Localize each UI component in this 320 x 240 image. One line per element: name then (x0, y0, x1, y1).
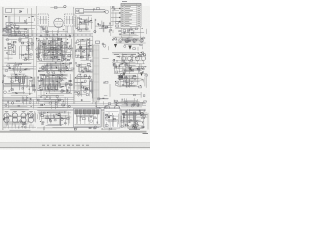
wire (102, 43, 109, 59)
wire (2, 74, 36, 95)
wire (114, 98, 147, 107)
wire (4, 39, 17, 61)
cable bus band (90, 45, 99, 102)
output transformer T5 (21, 112, 26, 127)
output transformer T3 (4, 112, 9, 127)
wire (38, 40, 71, 60)
wire (37, 126, 99, 130)
wire (96, 98, 111, 109)
wire bus lower (3, 104, 147, 111)
wire to table (111, 6, 121, 26)
wire bus left-mid (3, 67, 94, 102)
wire (84, 10, 105, 12)
wire (19, 38, 34, 61)
output transformer T4 (12, 112, 17, 127)
title strip (0, 143, 150, 148)
power resistor bank (45, 85, 58, 90)
wire (50, 5, 73, 8)
signal arrow (123, 73, 126, 77)
resistor R1 R2 (15, 26, 20, 33)
scan noise (0, 6, 150, 131)
power transistor Q301 (104, 105, 109, 110)
wire (11, 8, 27, 13)
wire (113, 62, 147, 74)
label above table (122, 0, 127, 2)
wire (10, 126, 31, 130)
wire (2, 96, 33, 110)
wire (4, 62, 33, 74)
wire (37, 26, 68, 33)
IF transformer T1 (38, 14, 49, 33)
power transistor Q302 (114, 105, 119, 110)
frame left inner line (2, 7, 4, 130)
wire (112, 7, 119, 22)
parts table (121, 4, 141, 27)
wire drops to bus (3, 125, 36, 129)
wire (38, 111, 72, 126)
IF transformer T2 (65, 14, 76, 33)
module M2 parts (105, 112, 119, 126)
output transformer T6 (28, 112, 33, 127)
heavy bus segment (3, 34, 23, 36)
module M1 parts (76, 116, 98, 124)
capacitor stack C1-C3 (6, 23, 11, 33)
wire (75, 38, 93, 60)
connector box P1 (76, 9, 84, 14)
wire (5, 16, 36, 26)
title strip text (42, 144, 89, 146)
wire (101, 128, 116, 131)
wire bus mid (4, 14, 94, 36)
wire (37, 95, 73, 109)
signal arrow (128, 68, 131, 72)
bottom margin (0, 133, 150, 150)
frame bottom edge (0, 131, 147, 133)
choke coils (19, 76, 25, 83)
wire (2, 28, 35, 38)
wire (77, 8, 106, 14)
wire (112, 52, 145, 63)
resistor group near table (116, 22, 122, 29)
wire (36, 38, 73, 62)
wire verticals (9, 6, 141, 104)
tube V1 (54, 18, 63, 27)
dark blob (119, 75, 124, 80)
signal arrow (114, 44, 117, 48)
tube V2 (105, 10, 108, 13)
tube V1 internals (55, 18, 62, 33)
wire (103, 81, 110, 96)
wire (115, 73, 148, 88)
wire (94, 19, 108, 34)
wire (75, 15, 93, 31)
wire (3, 111, 35, 126)
signal arrow (128, 46, 131, 50)
module box M1 (74, 109, 102, 128)
wire (102, 110, 103, 127)
wire (75, 62, 93, 73)
wire (112, 37, 146, 44)
wire (37, 74, 74, 96)
wire (124, 44, 143, 50)
wire (74, 74, 92, 101)
frame left line (1, 7, 3, 130)
transistors Q201-Q204 (122, 57, 146, 65)
band top connector (96, 41, 100, 44)
caption text (143, 133, 149, 135)
caption text 2 (129, 128, 140, 130)
transistor labels row (114, 54, 144, 56)
wire (121, 109, 148, 129)
wire (113, 28, 146, 36)
wire (120, 92, 145, 98)
terminal box J1 (6, 9, 12, 13)
signal arrow (140, 73, 143, 77)
top margin (0, 0, 150, 6)
wire (38, 62, 74, 74)
schematic page background (0, 0, 150, 150)
transistors Q101-Q104 (119, 39, 144, 43)
wire (102, 22, 113, 32)
bus junction dots (4, 34, 91, 37)
wire (39, 34, 71, 37)
module box M2 (104, 109, 120, 129)
